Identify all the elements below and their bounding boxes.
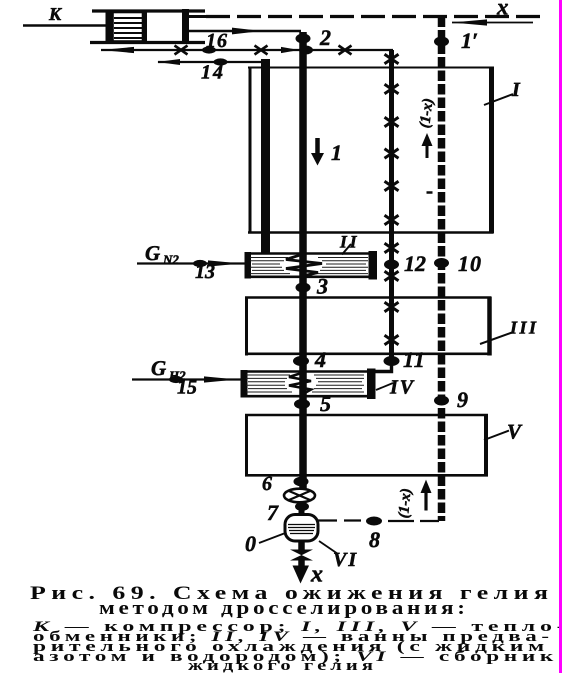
- node 9: [434, 396, 449, 406]
- svg-text:II: II: [339, 232, 360, 252]
- node 1': [434, 37, 449, 47]
- wire up arrow (1-x) bottom: [421, 480, 432, 511]
- wire line 14 (return): [157, 59, 270, 65]
- svg-text:G: G: [151, 356, 166, 380]
- wire suction line into compressor: [23, 24, 110, 27]
- valve mark x: [339, 46, 352, 55]
- wire main high pressure line (stream 1): [299, 32, 307, 490]
- wire G_H2 inlet 15: [132, 376, 241, 382]
- wire x-marked line horizontal from node 2: [303, 49, 393, 51]
- wire line 16 (return to compressor): [101, 47, 300, 53]
- node on line 14: [214, 58, 228, 65]
- bath II: [245, 251, 378, 280]
- svg-text:0: 0: [245, 531, 256, 556]
- svg-text:10: 10: [458, 251, 482, 276]
- valve (bowtie) at outlet: [290, 550, 313, 556]
- wire compressor discharge to node 2: [189, 28, 301, 35]
- caption heading line 1: [30, 583, 553, 605]
- svg-text:1: 1: [331, 140, 342, 165]
- svg-text:1′: 1′: [461, 28, 478, 53]
- svg-text:5: 5: [320, 391, 331, 416]
- svg-text:V: V: [507, 420, 523, 444]
- node 11: [384, 356, 400, 366]
- wire node 11 into bath IV: [369, 361, 392, 372]
- svg-text:I: I: [511, 79, 521, 101]
- wire line 16 arrowhead into node 2: [281, 47, 299, 53]
- node 4: [293, 356, 309, 366]
- node 2: [296, 34, 311, 44]
- node on line 16: [202, 46, 216, 53]
- node 12: [384, 260, 399, 270]
- caption heading line 2: [99, 598, 469, 620]
- wire vessel outlet down: [298, 541, 305, 551]
- wire outlet arrow stream x: [298, 560, 305, 569]
- svg-text:11: 11: [403, 347, 426, 372]
- node 10: [434, 258, 449, 268]
- compressor K: [90, 9, 208, 44]
- wire G_N2 inlet 13: [137, 260, 245, 266]
- svg-text:7: 7: [267, 500, 279, 525]
- caption body line 3: [33, 639, 549, 656]
- caption body line 2: [33, 629, 554, 646]
- svg-text:К: К: [48, 4, 63, 24]
- valve mark x on line 16: [175, 46, 188, 55]
- wire stream 1 down arrow: [311, 138, 324, 166]
- wire vapor line 8 from vessel to dashed return: [318, 519, 439, 522]
- svg-text:IV: IV: [389, 377, 415, 399]
- throttle valve 7: [284, 489, 315, 503]
- wire return tube down to bath II: [261, 59, 270, 253]
- wire top dashed line (stream x to right): [206, 15, 540, 18]
- heat exchanger III: [245, 297, 491, 356]
- svg-text:6: 6: [262, 473, 272, 495]
- bath IV: [241, 369, 376, 400]
- border frame: [559, 0, 562, 673]
- svg-text:3: 3: [316, 274, 328, 299]
- svg-text:2: 2: [319, 25, 331, 50]
- svg-text:16: 16: [206, 30, 228, 52]
- svg-text:III: III: [509, 318, 539, 338]
- svg-text:15: 15: [177, 377, 197, 399]
- valve marks x on vertical line 12/11: [385, 54, 399, 344]
- collector VI vessel: [299, 503, 305, 516]
- wire up arrow (1-x) in exchanger I: [422, 133, 433, 158]
- svg-text:x: x: [496, 0, 509, 20]
- caption body line 1: [33, 619, 562, 636]
- svg-text:(1-x): (1-x): [417, 97, 437, 129]
- node 3: [296, 283, 311, 293]
- node 6: [294, 477, 309, 487]
- heat exchanger V: [245, 414, 488, 477]
- caption body line 4: [33, 649, 558, 666]
- node 8: [366, 517, 382, 526]
- wire 1' arrow line: [452, 19, 533, 25]
- svg-text:N2: N2: [162, 252, 179, 267]
- node 5: [294, 399, 310, 409]
- svg-text:12: 12: [404, 251, 426, 276]
- svg-text:14: 14: [201, 62, 225, 84]
- heat exchanger I: [248, 67, 493, 234]
- svg-text:8: 8: [369, 527, 380, 552]
- svg-text:4: 4: [314, 347, 326, 372]
- wire vertical dashed return line (1-x): [438, 17, 446, 522]
- svg-text:13: 13: [195, 261, 215, 283]
- svg-text:(1-x): (1-x): [396, 488, 415, 519]
- caption body line 5: [188, 658, 377, 673]
- wire x-marked line vertical (stream 12/11): [389, 50, 394, 361]
- svg-text:9: 9: [457, 387, 468, 412]
- svg-text:G: G: [145, 241, 160, 265]
- valve mark x on line 16 (second): [255, 46, 268, 55]
